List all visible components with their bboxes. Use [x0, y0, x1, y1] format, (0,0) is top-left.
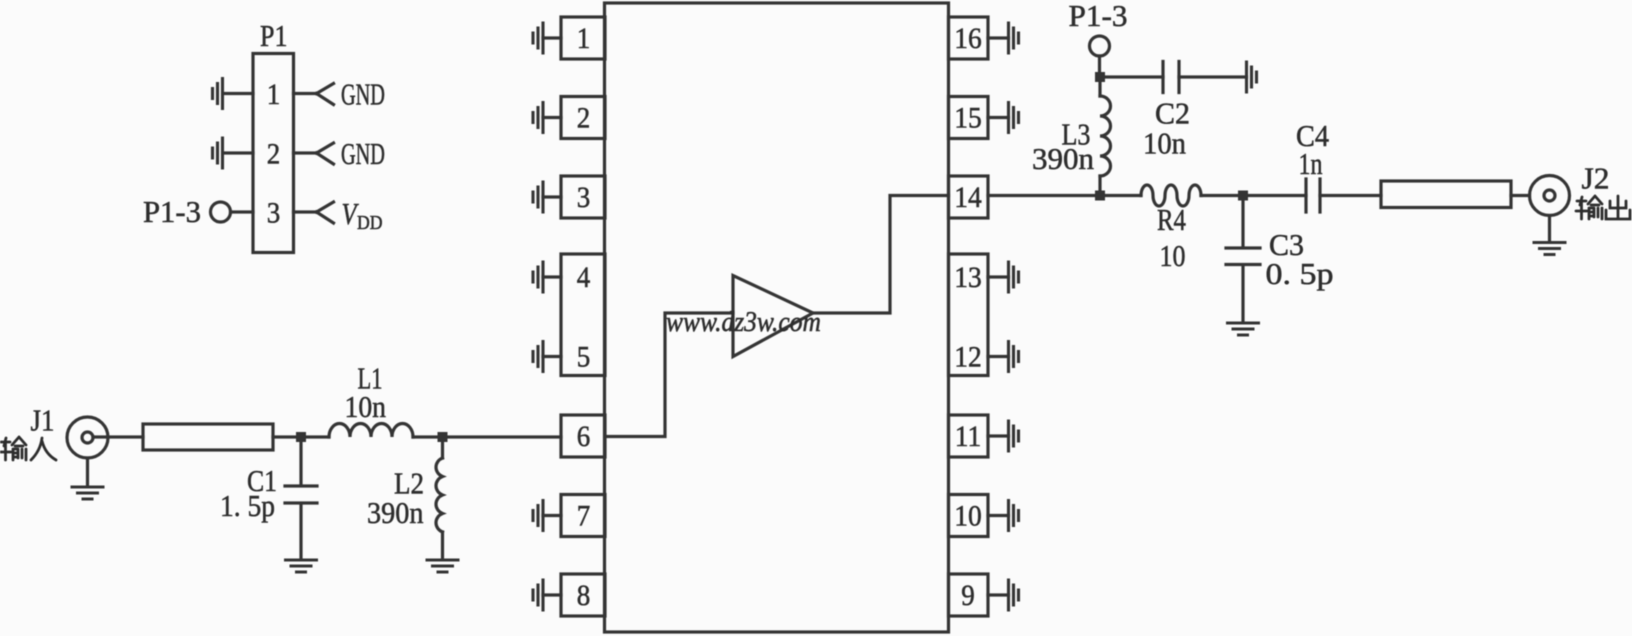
- svg-text:14: 14: [954, 181, 981, 214]
- svg-text:1: 1: [577, 23, 590, 56]
- svg-text:P1-3: P1-3: [1069, 0, 1128, 33]
- svg-text:C2: C2: [1155, 96, 1190, 131]
- svg-text:7: 7: [577, 500, 590, 533]
- svg-text:10n: 10n: [1143, 127, 1186, 161]
- svg-text:2: 2: [267, 138, 280, 171]
- svg-text:0. 5p: 0. 5p: [1266, 257, 1334, 291]
- svg-text:12: 12: [954, 340, 981, 373]
- svg-text:4: 4: [577, 262, 590, 295]
- svg-text:15: 15: [954, 101, 981, 134]
- svg-text:11: 11: [955, 420, 981, 453]
- svg-text:1. 5p: 1. 5p: [220, 490, 275, 524]
- svg-text:P1: P1: [260, 19, 287, 54]
- svg-text:J1: J1: [31, 404, 55, 438]
- svg-text:DD: DD: [357, 212, 383, 234]
- svg-text:L2: L2: [394, 467, 424, 501]
- svg-text:10: 10: [954, 499, 981, 532]
- svg-text:10: 10: [1160, 240, 1186, 274]
- svg-text:1: 1: [267, 79, 280, 112]
- svg-text:5: 5: [577, 341, 590, 374]
- svg-text:8: 8: [577, 580, 590, 613]
- svg-text:GND: GND: [341, 137, 385, 171]
- svg-text:9: 9: [961, 580, 974, 613]
- svg-text:J2: J2: [1582, 161, 1610, 196]
- svg-text:10n: 10n: [345, 391, 387, 425]
- svg-text:16: 16: [954, 22, 981, 55]
- svg-text:GND: GND: [341, 77, 385, 111]
- svg-text:www.dz3w.com: www.dz3w.com: [666, 306, 821, 337]
- svg-text:1n: 1n: [1299, 146, 1323, 181]
- svg-text:390n: 390n: [367, 497, 424, 530]
- svg-text:6: 6: [577, 421, 590, 454]
- svg-text:13: 13: [954, 261, 981, 294]
- svg-text:3: 3: [577, 182, 590, 215]
- svg-text:R4: R4: [1157, 204, 1186, 238]
- svg-text:390n: 390n: [1032, 141, 1095, 176]
- svg-text:2: 2: [577, 102, 590, 135]
- svg-text:3: 3: [267, 197, 280, 230]
- svg-text:P1-3: P1-3: [143, 195, 201, 229]
